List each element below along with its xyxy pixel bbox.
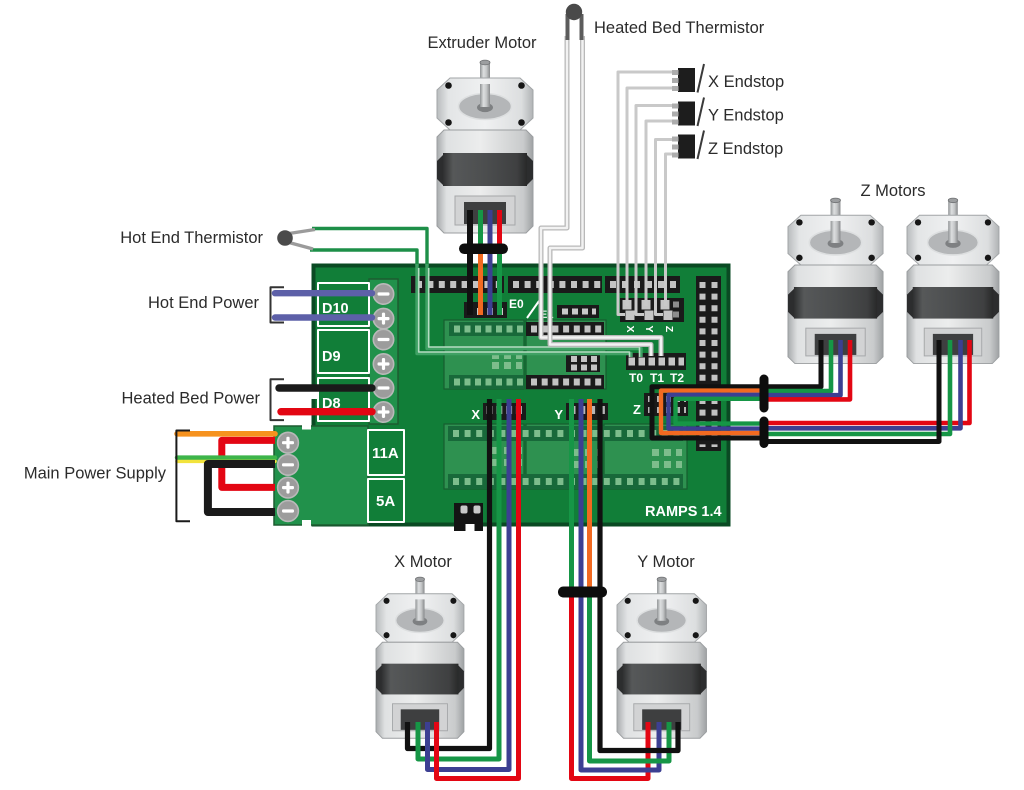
stepper motor M1 (extruder) xyxy=(437,60,533,233)
svg-text:X: X xyxy=(471,407,480,422)
wire extruder red (upper) xyxy=(497,210,502,250)
wire extruder black xyxy=(467,210,473,315)
silkscreen box D9 xyxy=(318,330,369,373)
wire Y blue (motor side) xyxy=(581,597,659,770)
wire Z1 green xyxy=(765,340,831,391)
stepper motor M2 (X) xyxy=(376,577,464,738)
wire X black xyxy=(408,399,490,749)
main power wire orange xyxy=(177,431,275,437)
silkscreen divider xyxy=(527,301,539,318)
bracket main power supply xyxy=(176,431,190,522)
connector Y motor output xyxy=(566,403,608,420)
svg-text:Z: Z xyxy=(633,402,641,417)
wire Y black (motor side) xyxy=(600,597,678,751)
terminal block TB1 (D10/D9/D8 outputs) xyxy=(369,279,398,424)
main power wire black xyxy=(208,464,275,512)
wire Y blue (board side) xyxy=(579,399,584,590)
svg-text:Hot End Thermistor: Hot End Thermistor xyxy=(120,229,263,247)
socket Z center pads xyxy=(652,449,682,456)
wire Y green (board side) xyxy=(569,399,574,590)
hot end thermistor wire B (green) xyxy=(310,250,417,266)
cable tie Z2 xyxy=(760,417,769,449)
Z endstop wire 1 xyxy=(656,140,679,315)
main power wire red xyxy=(222,440,275,487)
svg-text:D9: D9 xyxy=(322,349,341,365)
wire Y orange (board side) xyxy=(587,399,592,590)
header strip H3 (endstop row) xyxy=(605,276,680,293)
main power wire green xyxy=(177,455,275,459)
cable tie extruder xyxy=(459,244,508,255)
driver socket (E1 stepper) right xyxy=(526,320,606,389)
hot end thermistor TH1 xyxy=(289,230,315,234)
svg-text:11A: 11A xyxy=(372,445,399,462)
driver socket Z xyxy=(604,424,687,489)
wire Z2 blue xyxy=(765,340,961,428)
hot end power wire 2 (purple) xyxy=(275,314,372,320)
silkscreen box D8 xyxy=(318,378,369,421)
socket E-left center pads xyxy=(492,352,522,359)
wire Z1 red xyxy=(765,340,850,399)
svg-text:E0: E0 xyxy=(509,297,524,311)
Y endstop switch xyxy=(672,98,704,127)
wire Y red (motor side) xyxy=(572,597,649,779)
wire Z1 blue xyxy=(765,340,841,395)
main power wire yellow xyxy=(177,459,275,463)
wire X blue xyxy=(428,399,510,770)
wire Z green loop xyxy=(676,399,763,424)
svg-text:X: X xyxy=(624,325,636,332)
svg-text:Heated Bed Thermistor: Heated Bed Thermistor xyxy=(594,19,765,37)
wire extruder blue xyxy=(488,210,493,315)
RAMPS 1.4 board U1 xyxy=(314,266,729,525)
X endstop wire 1 xyxy=(618,72,678,315)
silkscreen box 5A xyxy=(368,479,404,522)
header strip H2 (aux pins) xyxy=(508,276,602,293)
svg-text:Y Motor: Y Motor xyxy=(637,553,695,571)
socket strip E-right bottom xyxy=(526,375,604,389)
Y endstop wire 1 xyxy=(636,106,678,315)
power block notch bottom xyxy=(302,520,311,527)
wire Y black (board side) xyxy=(597,399,602,590)
silkscreen box D10 xyxy=(318,283,369,326)
socket strip bottom-row bottom xyxy=(448,474,683,489)
wire Z orange loop xyxy=(661,391,762,433)
main power input block J1 xyxy=(274,426,368,525)
socket strip E-left bottom xyxy=(449,375,524,389)
heated bed thermistor wire A (white) xyxy=(541,36,661,356)
cable tie Y xyxy=(558,587,607,598)
bracket hot end power xyxy=(271,287,285,322)
heated bed power wire red xyxy=(281,408,372,415)
terminal screws TB1 xyxy=(373,284,393,304)
connector Z motor output xyxy=(644,393,688,416)
header strip H4 (right AUX double row) xyxy=(696,276,721,451)
driver socket Y xyxy=(526,424,602,489)
connector E1 xyxy=(557,305,599,318)
Z endstop wire 2 xyxy=(666,154,679,306)
stepper motor M4 (Z1) xyxy=(788,198,883,363)
connector X motor output xyxy=(483,403,526,420)
hot end power wire 1 (purple) xyxy=(275,290,372,296)
wire extruder orange (lower) xyxy=(478,248,483,315)
X endstop wire 2 xyxy=(627,88,678,306)
svg-text:Y Endstop: Y Endstop xyxy=(708,107,784,125)
Z endstop switch xyxy=(672,131,704,160)
svg-text:Z: Z xyxy=(663,326,675,333)
wire X green xyxy=(418,399,499,759)
wire extruder green (lower) xyxy=(497,248,502,315)
driver socket (E0 stepper) left xyxy=(444,320,524,389)
socket Y center pads xyxy=(573,449,600,456)
svg-text:Main Power Supply: Main Power Supply xyxy=(24,465,167,483)
heated bed thermistor wire B (white) xyxy=(550,36,651,356)
svg-text:Z Motors: Z Motors xyxy=(860,182,925,200)
socket X center pads xyxy=(492,447,522,454)
X endstop switch xyxy=(672,64,704,93)
thermistor connector T0/T1/T2 xyxy=(626,353,686,370)
wire Z1 black xyxy=(765,340,821,387)
svg-text:T2: T2 xyxy=(670,371,684,385)
power block notch top xyxy=(302,423,311,430)
svg-text:X Endstop: X Endstop xyxy=(708,73,784,91)
terminal screws J1 xyxy=(278,432,299,453)
svg-text:Heated Bed Power: Heated Bed Power xyxy=(121,390,260,408)
board edge notch xyxy=(310,388,317,399)
wire extruder green (upper) xyxy=(478,210,483,250)
svg-text:5A: 5A xyxy=(376,493,395,510)
socket strip bottom-row top xyxy=(448,426,683,441)
wire X red xyxy=(437,399,519,779)
svg-text:Y: Y xyxy=(554,407,563,422)
socket strip E-right top xyxy=(526,322,604,336)
svg-text:Z Endstop: Z Endstop xyxy=(708,140,783,158)
header strip H1 (power pins) xyxy=(411,276,504,293)
svg-text:RAMPS 1.4: RAMPS 1.4 xyxy=(645,504,722,520)
svg-text:X Motor: X Motor xyxy=(394,553,452,571)
socket strip E-left top xyxy=(449,322,524,336)
Y endstop wire 2 xyxy=(646,121,678,306)
cable tie Z1 xyxy=(760,375,769,413)
silkscreen box 11A xyxy=(368,430,404,475)
wire Z2 green xyxy=(765,340,950,434)
heated bed thermistor TH2 xyxy=(566,14,570,40)
diode D1 (bottom component) xyxy=(454,503,483,531)
driver socket X xyxy=(444,424,524,489)
svg-text:Y: Y xyxy=(643,325,655,332)
wire Z blue loop xyxy=(669,395,763,429)
bracket heated bed power xyxy=(271,379,285,420)
wire Z black loop xyxy=(652,387,762,438)
svg-text:T0: T0 xyxy=(629,371,643,385)
hot end thermistor wire A (green) xyxy=(312,229,427,267)
svg-text:T1: T1 xyxy=(650,371,664,385)
stepper motor M5 (Z2) xyxy=(907,198,999,363)
svg-text:Hot End Power: Hot End Power xyxy=(148,294,259,312)
wire Y green (motor side) xyxy=(590,597,670,761)
svg-text:Extruder Motor: Extruder Motor xyxy=(427,34,537,52)
connector E0 xyxy=(464,302,507,318)
connector pads mid-right xyxy=(566,354,600,372)
heated bed power wire black xyxy=(279,384,372,391)
endstop pin block xyxy=(620,298,684,322)
wire Z2 red xyxy=(765,340,970,423)
wire Z2 black xyxy=(765,340,939,442)
stepper motor M3 (Y) xyxy=(617,577,706,738)
